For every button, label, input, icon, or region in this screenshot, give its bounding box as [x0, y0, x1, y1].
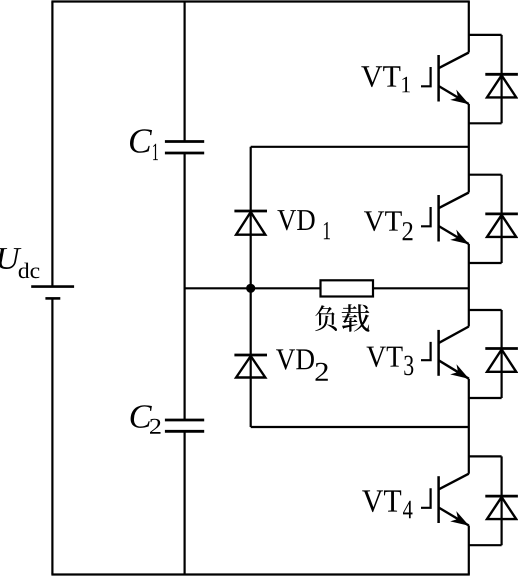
- wire right rail segment 3: [468, 244, 470, 327]
- diode D1: [485, 74, 518, 97]
- label C2: [131, 405, 161, 433]
- wire D4 loop bottom: [469, 544, 502, 546]
- wire D2 loop bottom: [469, 262, 502, 264]
- wire D1 loop bottom: [469, 122, 502, 124]
- diode D2: [485, 214, 518, 237]
- wire right rail segment 2: [468, 104, 470, 193]
- label VD2: [276, 349, 328, 380]
- label VT3: [367, 347, 414, 376]
- label 负载: [315, 304, 369, 332]
- capacitor C2: [165, 420, 204, 431]
- diode VD2: [234, 355, 267, 378]
- wire D1 loop top: [469, 34, 502, 36]
- wire lower junction branch: [251, 426, 469, 428]
- transistor VT1: [421, 53, 469, 105]
- wire top DC bus: [51, 0, 469, 2]
- wire left rail upper: [51, 2, 53, 287]
- label VT1: [361, 66, 410, 92]
- wire load to right rail: [373, 287, 469, 289]
- wire D3 branch: [501, 310, 503, 398]
- diode D4: [485, 496, 518, 519]
- battery Udc: [31, 287, 74, 299]
- label C1: [130, 129, 158, 160]
- label VD1: [277, 210, 330, 239]
- wire D2 loop top: [469, 174, 502, 176]
- transistor VT3: [421, 327, 469, 379]
- wire right rail segment 4: [468, 379, 470, 474]
- wire capacitor rail upper: [184, 2, 186, 142]
- transistor VT4: [421, 474, 469, 526]
- diode D3: [485, 349, 518, 372]
- node neutral junction: [246, 284, 255, 293]
- wire right rail segment 5: [468, 526, 470, 575]
- label Udc: [0, 248, 39, 278]
- wire D2 branch: [501, 175, 503, 263]
- wire D1 branch: [501, 35, 503, 123]
- label VT4: [362, 490, 412, 518]
- wire D3 loop bottom: [469, 397, 502, 399]
- label VT2: [364, 211, 413, 240]
- wire right rail segment 1: [468, 2, 470, 53]
- diode VD1: [234, 211, 267, 235]
- wire clamp rail: [250, 147, 252, 427]
- wire D4 loop top: [469, 455, 502, 457]
- wire capacitor rail lower: [184, 431, 186, 574]
- wire clamp branch top: [251, 146, 469, 148]
- wire D3 loop top: [469, 309, 502, 311]
- wire capacitor rail middle: [184, 153, 186, 420]
- wire neutral point to load: [185, 287, 321, 289]
- transistor VT2: [421, 193, 469, 245]
- wire bottom DC bus: [51, 573, 469, 575]
- capacitor C1: [165, 142, 204, 154]
- wire left rail lower: [51, 298, 53, 574]
- resistor load box: [321, 280, 374, 296]
- wire D4 branch: [501, 456, 503, 545]
